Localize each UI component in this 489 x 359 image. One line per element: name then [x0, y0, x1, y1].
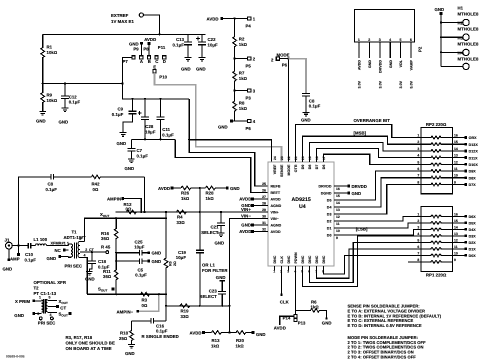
svg-text:MODE: MODE	[287, 164, 291, 176]
capacitor C5 0.1uF	[116, 258, 161, 277]
wire T1 CT row	[84, 251, 106, 253]
svg-text:11: 11	[454, 167, 458, 171]
wire D8 to RP2 row3	[310, 142, 421, 162]
svg-text:D4: D4	[327, 206, 332, 210]
resistor R6 1k	[296, 299, 327, 317]
svg-text:A: A	[140, 59, 143, 64]
svg-text:SELECT: SELECT	[200, 294, 218, 299]
svg-text:AVDD: AVDD	[271, 198, 281, 202]
wire R19 bus	[166, 305, 230, 307]
connector E1 EXTREF	[111, 13, 143, 24]
svg-text:D3X: D3X	[469, 235, 477, 239]
svg-text:VREF: VREF	[273, 164, 277, 175]
svg-text:0Ω: 0Ω	[142, 303, 148, 308]
ground under C13	[181, 58, 191, 72]
node GND T2	[14, 312, 41, 318]
svg-text:D5X: D5X	[469, 222, 477, 226]
svg-text:10: 10	[454, 251, 458, 255]
svg-text:2: 2	[368, 38, 370, 42]
svg-text:GND: GND	[389, 60, 393, 68]
svg-text:GND: GND	[301, 118, 311, 123]
svg-text:D8: D8	[308, 165, 312, 170]
U4 bottom pin numbers	[273, 270, 324, 274]
P2 pin 1 AVDD	[358, 42, 360, 58]
wire VIN+ main bus	[116, 211, 263, 213]
svg-text:16: 16	[454, 212, 458, 216]
svg-text:1: 1	[39, 295, 41, 299]
ground under R6	[322, 317, 332, 325]
resistor R11 36	[103, 253, 118, 295]
svg-text:DNC: DNC	[287, 255, 291, 263]
wire D4 to RP2 row7	[334, 178, 421, 207]
wire DNC pin8 to RP1 row7	[324, 255, 421, 274]
svg-text:GND: GND	[125, 166, 135, 171]
RP1 resistor rows	[421, 215, 453, 263]
wire REFB line from rail	[189, 99, 268, 186]
svg-text:D12X: D12X	[469, 150, 479, 154]
svg-text:C11: C11	[162, 127, 170, 132]
svg-text:R28: R28	[206, 191, 215, 196]
svg-text:D10X: D10X	[469, 163, 479, 167]
jumper P6 MODE pad 2	[271, 53, 290, 68]
svg-text:R2: R2	[239, 37, 245, 42]
svg-text:0.1μF: 0.1μF	[112, 112, 124, 117]
svg-text:C7: C7	[137, 148, 143, 153]
wire D1 to RP1 row2	[334, 223, 421, 228]
capacitor C25 10uF	[116, 240, 161, 256]
svg-text:D0X: D0X	[469, 254, 477, 258]
svg-text:D6X: D6X	[469, 215, 477, 219]
svg-text:DRVDD: DRVDD	[378, 60, 382, 73]
svg-text:1: 1	[358, 38, 360, 42]
wire DNC pin5 to RP1 row4	[303, 236, 421, 287]
capacitor C22 10uF polarized	[196, 34, 218, 57]
RP2 resistor rows	[421, 136, 453, 186]
svg-text:ON BOARD AT A TIME: ON BOARD AT A TIME	[66, 346, 112, 351]
svg-text:12: 12	[454, 160, 458, 164]
wire C8 R42 amp path top	[19, 177, 52, 246]
pin stub DNC3	[288, 266, 290, 271]
svg-text:R20: R20	[236, 338, 245, 343]
wire AVDD to P4	[223, 17, 248, 19]
svg-text:D1: D1	[327, 227, 332, 231]
svg-text:D7: D7	[315, 165, 319, 170]
svg-text:MTHOLE8: MTHOLE8	[458, 57, 479, 62]
svg-text:SENSE: SENSE	[280, 164, 284, 177]
svg-text:AVDD: AVDD	[239, 197, 251, 202]
wire jumper to AVDD	[274, 316, 294, 330]
svg-text:10: 10	[336, 229, 340, 233]
svg-text:D11X: D11X	[469, 156, 479, 160]
resistor network RP1 220	[421, 207, 453, 278]
svg-text:1kΩ: 1kΩ	[236, 344, 245, 349]
svg-text:1: 1	[417, 134, 419, 138]
node AVDD pin32	[239, 229, 268, 234]
svg-text:4: 4	[84, 253, 86, 257]
resistor R1 10k	[41, 34, 58, 83]
P2 pin 4 GND	[389, 42, 391, 58]
svg-text:VDL: VDL	[399, 59, 403, 67]
U4 top pin numbers	[273, 156, 326, 160]
svg-text:0Ω: 0Ω	[93, 187, 99, 192]
svg-text:D: D	[163, 59, 166, 64]
note SENSE jumper block	[348, 303, 442, 328]
svg-text:R5: R5	[168, 261, 172, 266]
svg-text:[MSB]: [MSB]	[354, 131, 367, 136]
wire DNC pin6 to RP1 row5	[310, 242, 421, 282]
svg-text:6: 6	[417, 245, 419, 249]
svg-text:C13: C13	[176, 37, 185, 42]
P2 pin 5 VDL	[400, 42, 402, 58]
resistor R16 36	[101, 218, 118, 253]
svg-text:L1 100: L1 100	[34, 237, 48, 242]
svg-text:DNC: DNC	[322, 255, 326, 263]
svg-text:4: 4	[417, 232, 419, 236]
svg-text:DRVDD: DRVDD	[319, 185, 332, 189]
node GND pin31	[241, 223, 268, 228]
svg-text:REFB: REFB	[271, 185, 281, 189]
svg-text:EXTREF: EXTREF	[111, 13, 129, 18]
wire EXTREF to rail	[143, 15, 159, 34]
note R3 R17 R18	[66, 335, 115, 351]
svg-text:33Ω: 33Ω	[181, 314, 190, 319]
svg-text:R SINGLE ENDED: R SINGLE ENDED	[142, 334, 179, 339]
svg-text:3.0V: 3.0V	[378, 80, 382, 88]
svg-text:14: 14	[454, 225, 458, 229]
svg-text:11: 11	[454, 245, 458, 249]
svg-text:7: 7	[417, 174, 419, 178]
wire C16 row	[132, 320, 151, 322]
svg-text:DNC: DNC	[308, 255, 312, 263]
T2 test point circles	[39, 317, 53, 320]
svg-text:D2X: D2X	[469, 241, 477, 245]
svg-text:0.1μF: 0.1μF	[137, 154, 149, 159]
resistor R12 0ohm	[124, 202, 137, 214]
svg-text:R3, R17, R18: R3, R17, R18	[66, 335, 93, 340]
svg-text:GND: GND	[85, 276, 95, 281]
svg-text:0.1μF: 0.1μF	[173, 43, 185, 48]
svg-text:0.1μF: 0.1μF	[46, 187, 58, 192]
mounting hole H2 MTHOLE8	[441, 21, 479, 41]
svg-text:C10: C10	[25, 252, 34, 257]
svg-text:P4: P4	[246, 24, 252, 29]
capacitor C23 select	[200, 289, 227, 306]
svg-text:AVDD: AVDD	[158, 186, 170, 191]
svg-text:13: 13	[454, 154, 458, 158]
svg-text:D7X: D7X	[469, 183, 477, 187]
svg-text:[LSB]: [LSB]	[356, 227, 368, 232]
wire J1 to C10	[12, 245, 28, 247]
capacitor C8 0.1uF	[302, 93, 321, 112]
RP1 pin numbers right	[454, 212, 458, 261]
svg-text:DNC: DNC	[301, 255, 305, 263]
svg-text:B: B	[148, 59, 151, 64]
svg-text:7: 7	[417, 251, 419, 255]
svg-text:GND: GND	[125, 351, 135, 356]
P2 pin 6 VAMP	[410, 42, 412, 58]
svg-text:D9: D9	[301, 165, 305, 170]
svg-text:OTR: OTR	[294, 164, 298, 172]
svg-text:12: 12	[454, 238, 458, 242]
svg-text:R19: R19	[181, 309, 190, 314]
node GND pin28	[241, 203, 268, 208]
mounting hole H1 MTHOLE8	[441, 6, 479, 26]
svg-text:OPTIONAL XFR: OPTIONAL XFR	[34, 280, 67, 285]
resistor R26 1k	[181, 186, 206, 201]
svg-text:03583-0-005: 03583-0-005	[6, 355, 25, 359]
svg-text:D0: D0	[327, 234, 332, 238]
P2 pin 3 DRVDD	[379, 42, 381, 58]
svg-text:D6: D6	[322, 165, 326, 170]
svg-text:R13: R13	[212, 338, 221, 343]
wire divider to bus and C19	[199, 188, 201, 306]
wire MODE to C8 gray	[289, 59, 307, 94]
resistor R7 1k	[233, 59, 248, 91]
ground under C8	[301, 112, 311, 122]
svg-text:VIN+: VIN+	[271, 211, 279, 215]
svg-text:MTHOLE8: MTHOLE8	[458, 27, 479, 32]
wire VREF tap	[189, 140, 271, 162]
svg-text:1kΩ: 1kΩ	[181, 196, 190, 201]
svg-text:D8X: D8X	[469, 176, 477, 180]
svg-text:AVDD: AVDD	[190, 331, 202, 336]
svg-text:C21: C21	[210, 224, 219, 229]
svg-text:25Ω: 25Ω	[119, 336, 128, 341]
wire T1 sec bottom to SOUT	[83, 258, 88, 295]
svg-text:10μF: 10μF	[176, 255, 187, 260]
mounting hole H4 MTHOLE8	[441, 51, 479, 70]
svg-text:36Ω: 36Ω	[103, 274, 112, 279]
U4 left pin numbers	[262, 182, 266, 232]
wire T1 sec top to XOUT bus	[84, 218, 166, 241]
ground divider bottom	[218, 120, 235, 130]
wire D2 to RP1 row1	[334, 216, 421, 221]
svg-text:2: 2	[417, 140, 419, 144]
svg-text:D13X: D13X	[469, 143, 479, 147]
svg-text:PRI SEC: PRI SEC	[65, 263, 83, 268]
svg-text:C22: C22	[208, 37, 217, 42]
svg-text:AVDD: AVDD	[144, 37, 156, 42]
svg-text:AVDD: AVDD	[207, 17, 219, 22]
svg-text:22: 22	[287, 156, 291, 160]
svg-text:OVERRANGE BIT: OVERRANGE BIT	[354, 118, 391, 123]
svg-text:R7: R7	[239, 71, 245, 76]
svg-text:C8: C8	[48, 182, 54, 187]
wire mthole bus	[440, 15, 442, 67]
svg-text:24: 24	[273, 156, 277, 160]
capacitor C10 0.1uF series	[25, 243, 37, 263]
svg-text:23: 23	[280, 156, 284, 160]
ground T1 primary	[47, 255, 69, 261]
wire L1 to T1	[47, 245, 69, 247]
note MODE jumper block	[348, 335, 427, 359]
resistor R18 25ohm	[119, 321, 133, 345]
svg-text:D9X: D9X	[469, 170, 477, 174]
svg-text:0.1μF: 0.1μF	[309, 104, 321, 109]
svg-text:T2: T2	[34, 286, 40, 291]
svg-text:2Ω: 2Ω	[173, 261, 177, 266]
svg-text:P8: P8	[143, 46, 149, 51]
svg-text:GND: GND	[215, 241, 225, 246]
svg-text:PRI SEC: PRI SEC	[38, 320, 56, 325]
svg-text:P10: P10	[159, 75, 167, 80]
U4 bottom pin labels	[273, 252, 326, 264]
svg-text:VIN−: VIN−	[271, 217, 279, 221]
junction dots VREF rail	[131, 98, 133, 100]
svg-text:GND: GND	[181, 67, 191, 72]
svg-text:C28: C28	[145, 124, 154, 129]
svg-text:10kΩ: 10kΩ	[47, 98, 58, 103]
svg-text:0.1μF: 0.1μF	[135, 272, 147, 277]
wire D3 to RP2 row8	[334, 184, 421, 214]
ground under C7	[125, 159, 135, 171]
svg-text:R4: R4	[177, 215, 183, 220]
svg-text:CLK: CLK	[280, 256, 284, 264]
wire OTR to RP2 row1	[296, 124, 421, 162]
svg-text:2: 2	[417, 219, 419, 223]
resistor R3 0ohm on SOUT bus	[141, 292, 150, 308]
wire VIN- pin stub	[244, 218, 268, 220]
svg-text:RP2 220Ω: RP2 220Ω	[426, 122, 447, 127]
svg-text:NC: NC	[55, 248, 61, 253]
capacitor C21 select	[201, 212, 225, 235]
svg-text:AMP: AMP	[10, 256, 20, 261]
pin stub DNC1	[274, 266, 276, 271]
svg-text:0.1μF: 0.1μF	[162, 133, 174, 138]
capacitor C13 0.1uF	[173, 34, 193, 57]
wire mid rail	[43, 83, 123, 85]
svg-text:AVDD: AVDD	[271, 230, 281, 234]
svg-text:MTHOLE8: MTHOLE8	[458, 42, 479, 47]
svg-text:R26: R26	[181, 191, 190, 196]
svg-text:6: 6	[410, 38, 412, 42]
svg-text:10μF: 10μF	[134, 245, 145, 250]
svg-text:8: 8	[417, 258, 419, 262]
jumper P4 pad 1	[246, 17, 256, 29]
svg-text:5: 5	[49, 295, 51, 299]
svg-text:E TO D: INTERNAL 0.5V REFERENC: E TO D: INTERNAL 0.5V REFERENCE	[348, 323, 422, 328]
svg-text:P2: P2	[418, 46, 423, 52]
svg-text:VAMP: VAMP	[410, 59, 414, 70]
node AMPIN+	[107, 196, 141, 212]
svg-text:ONLY ONE SHOULD BE: ONLY ONE SHOULD BE	[66, 341, 115, 346]
ground under R9	[36, 112, 46, 124]
svg-text:2 TO 4: OFFSET BINARY/DCS OFF: 2 TO 4: OFFSET BINARY/DCS OFF	[348, 354, 417, 359]
ground under C18	[85, 272, 95, 282]
resistor R9 10k	[41, 84, 58, 112]
svg-text:4: 4	[417, 154, 419, 158]
svg-text:DRVDD: DRVDD	[352, 184, 367, 189]
jumper P6 pad 4	[235, 119, 256, 131]
T2 right labels	[56, 299, 71, 318]
svg-text:T1: T1	[72, 230, 78, 235]
svg-text:H1: H1	[458, 6, 464, 11]
svg-text:1kΩ: 1kΩ	[211, 344, 220, 349]
test point R45	[101, 244, 111, 253]
svg-text:RP1 220Ω: RP1 220Ω	[426, 273, 447, 278]
wire VIN+ pin stub	[263, 211, 269, 213]
svg-text:15: 15	[454, 219, 458, 223]
junction node R9/C12 rail	[64, 82, 66, 84]
svg-text:16: 16	[454, 134, 458, 138]
svg-text:MTHOLE8: MTHOLE8	[458, 12, 479, 17]
svg-text:D4X: D4X	[469, 228, 477, 232]
svg-text:9: 9	[454, 258, 456, 262]
svg-text:9: 9	[454, 180, 456, 184]
jumper P14 P13	[283, 315, 306, 326]
svg-text:R42: R42	[92, 182, 101, 187]
capacitor C18 0.1uF	[88, 252, 110, 271]
svg-text:6: 6	[417, 167, 419, 171]
node X PRIM	[15, 299, 42, 304]
note OR L1 FOR FILTER	[202, 262, 228, 273]
svg-text:12: 12	[336, 215, 340, 219]
svg-text:3: 3	[417, 225, 419, 229]
connector J1	[5, 238, 13, 250]
svg-text:D3: D3	[327, 213, 332, 217]
svg-text:D5: D5	[327, 199, 332, 203]
svg-text:16: 16	[336, 187, 340, 191]
svg-text:GND: GND	[152, 251, 162, 256]
svg-text:13: 13	[454, 232, 458, 236]
wire SOUT bus	[87, 293, 166, 295]
svg-text:GND: GND	[196, 67, 206, 72]
capacitor C9 0.1uF	[112, 99, 137, 133]
RP2 pin numbers right	[454, 134, 458, 185]
svg-text:C23: C23	[209, 289, 218, 294]
wire D0 to RP1 row3	[334, 229, 421, 235]
resistor R4 33ohm	[177, 210, 187, 225]
svg-text:P6: P6	[246, 126, 252, 131]
svg-text:1: 1	[417, 212, 419, 216]
wire MODE to IC pin	[280, 59, 289, 162]
transformer T2 optional	[34, 280, 67, 296]
ground under C12	[59, 108, 69, 125]
wire RP1 row8 stub	[408, 261, 421, 263]
node GND mounting holes	[435, 7, 445, 15]
wire riser to jumper P7	[123, 57, 132, 83]
node SOUT label	[98, 287, 114, 293]
svg-text:10μF: 10μF	[208, 43, 219, 48]
svg-text:GND: GND	[218, 125, 228, 130]
mounting hole H3 MTHOLE8	[441, 36, 479, 56]
P2 pin 2 GND	[368, 42, 370, 58]
svg-text:PDWN: PDWN	[294, 252, 298, 264]
svg-text:R3: R3	[142, 298, 148, 303]
svg-text:GND: GND	[216, 275, 226, 280]
svg-text:H2: H2	[458, 21, 464, 26]
svg-text:FOR FILTER: FOR FILTER	[202, 268, 228, 273]
svg-text:H4: H4	[458, 51, 464, 56]
ground under C9	[117, 133, 127, 146]
svg-text:3.0V: 3.0V	[358, 80, 362, 88]
ground under J1	[3, 249, 13, 272]
wire REFT rail2	[131, 138, 175, 140]
svg-text:GND: GND	[368, 60, 372, 68]
U4 top pin labels	[273, 164, 326, 177]
svg-text:AD9215: AD9215	[292, 197, 311, 203]
svg-text:5: 5	[417, 238, 419, 242]
svg-text:0.1μF: 0.1μF	[156, 329, 168, 334]
svg-text:10kΩ: 10kΩ	[47, 50, 58, 55]
op-amp U1 AD9215 ADC U4	[268, 162, 334, 266]
capacitor C19 10uF	[176, 249, 204, 260]
resistor R20 1k	[230, 331, 252, 349]
svg-text:AGND: AGND	[271, 204, 282, 208]
node AVDD pin27	[239, 197, 268, 202]
node DRVDD pin16	[334, 184, 367, 189]
capacitor C7 0.1uF	[127, 139, 148, 159]
